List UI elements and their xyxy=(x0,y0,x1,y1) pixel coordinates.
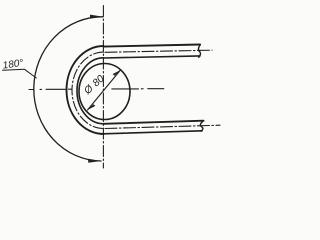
outer wall arc xyxy=(67,46,104,134)
label 180 deg xyxy=(2,58,24,72)
arrow bottom xyxy=(88,159,101,163)
bend centerline arc xyxy=(72,52,104,128)
vertical centerline xyxy=(102,6,104,169)
bottom tube bottom line xyxy=(104,131,203,134)
inner wall arc xyxy=(77,58,104,124)
leader line 180 xyxy=(3,69,37,78)
horizontal centerline xyxy=(29,88,164,91)
label diameter 80 xyxy=(82,73,107,97)
top tube top line xyxy=(104,45,201,47)
bend inner circle xyxy=(79,64,130,120)
bottom tube break line xyxy=(200,121,203,131)
bottom tube centerline xyxy=(105,125,220,128)
diameter arrow lower xyxy=(88,104,96,110)
arrow top xyxy=(90,15,103,19)
180 dimension arc xyxy=(34,17,103,161)
diameter dimension line xyxy=(88,70,121,110)
top tube bottom line xyxy=(104,56,201,58)
top tube centerline xyxy=(105,50,212,52)
bottom tube top line xyxy=(104,121,204,124)
diameter arrow upper xyxy=(113,70,121,76)
top tube break line xyxy=(198,45,200,58)
